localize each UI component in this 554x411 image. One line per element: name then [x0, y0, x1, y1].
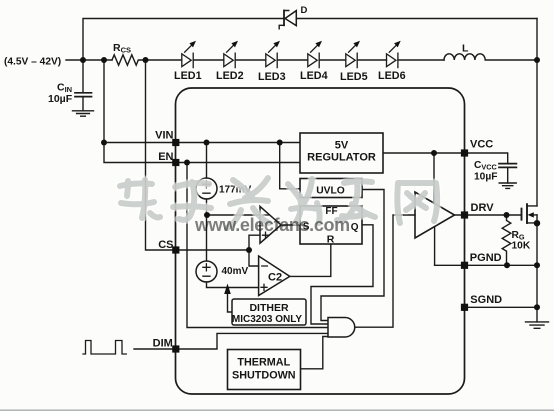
pulse waveform DIM	[83, 341, 126, 355]
svg-text:LED1: LED1	[174, 70, 202, 82]
wire right rail drain side	[536, 19, 538, 206]
svg-text:Q: Q	[351, 222, 359, 233]
LED3	[266, 53, 277, 67]
wire UVLO out to gate	[321, 190, 384, 321]
node cs comparators	[246, 247, 252, 253]
wire UVLO feed	[280, 143, 300, 189]
svg-text:10K: 10K	[512, 241, 531, 252]
svg-text:D: D	[301, 5, 308, 16]
wire C1 minus input	[207, 214, 260, 216]
node pgnd rail	[534, 262, 540, 268]
node rcs right	[143, 57, 149, 63]
svg-text:UVLO: UVLO	[316, 186, 345, 197]
node vin branch	[101, 140, 107, 146]
svg-text:VCC: VCC	[470, 139, 493, 151]
op-amp driver U1	[415, 192, 455, 238]
box dither	[232, 299, 306, 325]
svg-text:RCS: RCS	[113, 42, 131, 55]
svg-text:C2: C2	[268, 272, 282, 284]
box UVLO	[300, 179, 362, 198]
wire EN to gate	[187, 163, 328, 328]
node switch top	[534, 57, 540, 63]
transistor Q1 mosfet	[521, 209, 523, 220]
wire VIN branch	[104, 60, 172, 163]
resistor RCS	[112, 55, 146, 65]
svg-text:40mV: 40mV	[222, 266, 249, 277]
svg-text:CVCC: CVCC	[474, 160, 497, 172]
svg-text:THERMAL: THERMAL	[237, 357, 290, 369]
pad CS	[172, 246, 179, 253]
svg-text:LED4: LED4	[300, 70, 328, 82]
svg-text:VIN: VIN	[155, 130, 173, 142]
wire DIM lead	[134, 348, 172, 350]
wire thermal to gate	[301, 337, 329, 369]
watermark overlay	[120, 178, 437, 235]
pad DRV	[461, 211, 468, 218]
svg-text:(4.5V – 42V): (4.5V – 42V)	[4, 57, 61, 68]
wire DRV line	[455, 214, 522, 216]
box thermal shutdown	[228, 350, 301, 390]
and-gate	[328, 318, 355, 338]
box 5V regulator	[300, 133, 383, 173]
wire top rail right	[296, 18, 537, 20]
source 40mV	[196, 261, 217, 282]
wire driver vcc tap	[433, 153, 435, 204]
wire CS to C1 plus	[249, 235, 260, 250]
svg-text:SGND: SGND	[470, 294, 502, 306]
node rg bottom	[504, 262, 510, 268]
box flip-flop FF	[300, 206, 362, 244]
wire C1 out to FF S	[281, 224, 300, 226]
LED arrows heads	[189, 41, 196, 48]
svg-text:LED5: LED5	[340, 71, 368, 83]
svg-text:MIC3203 ONLY: MIC3203 ONLY	[232, 314, 303, 325]
IC body MIC3203	[176, 88, 465, 394]
wire CS internal	[179, 249, 249, 251]
wire dither inject	[228, 294, 233, 312]
wire CS branch	[146, 60, 173, 250]
wire DIM internal	[179, 333, 328, 349]
source 177mV	[196, 178, 217, 199]
wire VCC line	[383, 153, 508, 164]
mosfet body arrow	[528, 212, 534, 217]
wire reference chain	[207, 143, 259, 288]
svg-text:LED6: LED6	[378, 70, 406, 82]
wire FF Q to gate	[311, 225, 373, 324]
svg-text:DIM: DIM	[153, 337, 173, 349]
node c1 minus	[204, 212, 210, 218]
wire PGND line	[435, 264, 537, 266]
pad VCC	[461, 149, 468, 156]
svg-text:L: L	[462, 43, 469, 55]
pad SGND	[461, 304, 468, 311]
capacitor CIN	[82, 60, 84, 111]
LED2	[224, 53, 235, 67]
resistor RG	[502, 215, 511, 265]
svg-text:LED3: LED3	[258, 71, 286, 83]
svg-text:REGULATOR: REGULATOR	[307, 151, 376, 163]
node sgnd rail	[534, 304, 540, 310]
comparator C2	[259, 256, 290, 296]
wire right rail source side	[536, 215, 538, 322]
arrow dither head	[224, 284, 231, 295]
svg-text:LED2: LED2	[216, 70, 244, 82]
LED5	[346, 53, 357, 67]
ground CVCC	[499, 183, 516, 188]
node uvlo feed	[277, 140, 283, 146]
svg-text:DITHER: DITHER	[249, 302, 289, 314]
svg-text:EN: EN	[158, 151, 173, 163]
wire C2 out to FF R	[290, 244, 331, 276]
svg-text:www.elecfans.com: www.elecfans.com	[194, 215, 350, 235]
LED1	[182, 53, 193, 67]
LED6	[387, 53, 398, 67]
ground CIN	[73, 111, 94, 116]
svg-text:5V: 5V	[335, 140, 349, 152]
wire SGND line	[465, 306, 538, 308]
wire VIN internal	[179, 142, 300, 144]
diode D (schottky)	[283, 11, 285, 26]
wire input line	[66, 59, 112, 61]
comparator C1	[260, 206, 281, 243]
pad EN	[172, 159, 179, 166]
node mosfet source	[534, 220, 540, 226]
node rcs left	[101, 57, 107, 63]
svg-text:CS: CS	[158, 239, 173, 251]
svg-text:PGND: PGND	[470, 252, 502, 264]
wire EN internal	[179, 162, 300, 164]
svg-text:DRV: DRV	[471, 202, 495, 214]
wire led string	[146, 59, 445, 61]
watermark hanzi strokes (electronic-fans brush glyphs)	[120, 178, 437, 228]
LED4	[308, 53, 319, 67]
node en branch	[184, 160, 190, 166]
scan border bottom	[0, 409, 554, 411]
wire CS to C2 minus	[249, 250, 259, 266]
svg-text:10µF: 10µF	[48, 93, 73, 105]
ground main	[526, 322, 549, 328]
capacitor CVCC	[499, 164, 516, 168]
wire top rail left	[83, 19, 284, 61]
inductor L	[444, 54, 537, 60]
svg-text:10µF: 10µF	[474, 172, 497, 183]
wire driver pgnd tap	[434, 228, 436, 266]
node input	[80, 57, 86, 63]
node vcc tap	[431, 150, 437, 156]
pad PGND	[461, 262, 468, 269]
wire AND out to driver	[355, 215, 415, 327]
svg-text:SHUTDOWN: SHUTDOWN	[232, 370, 296, 382]
node drv gate	[504, 212, 510, 218]
pad VIN	[172, 139, 179, 146]
node ref top	[204, 140, 210, 146]
svg-text:R: R	[327, 234, 335, 246]
pad DIM	[172, 345, 179, 352]
